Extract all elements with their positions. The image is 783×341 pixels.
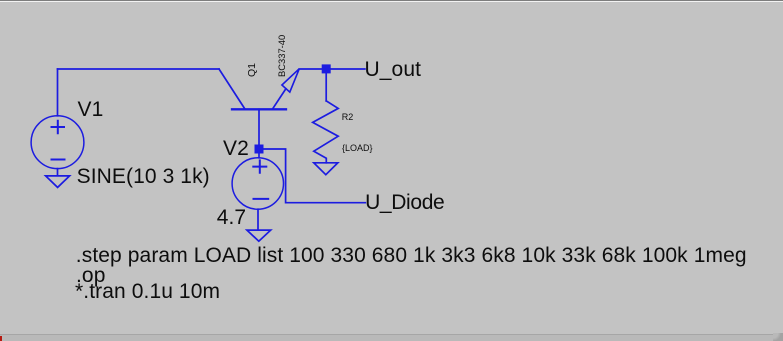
label BC337-40 (rotated)	[277, 35, 286, 77]
junction node at V2 plus	[255, 145, 264, 154]
transistor Q1 collector diagonal	[219, 69, 245, 109]
transistor Q1 base wire down	[258, 109, 260, 149]
wire junction to right elbow	[262, 149, 365, 203]
red corner mark	[0, 336, 2, 341]
directive commented .tran	[75, 281, 220, 302]
transistor Q1 emitter arrow	[282, 69, 299, 92]
ground under V2	[247, 209, 271, 241]
label Q1 (rotated)	[247, 63, 258, 77]
label LOAD value	[342, 144, 373, 153]
wire emitter to U_out junction	[299, 68, 365, 70]
V1 circle	[31, 116, 84, 169]
label V1	[78, 99, 104, 120]
resistor R2 zigzag	[313, 101, 339, 163]
label U_Diode net	[365, 192, 444, 213]
V2 plus sign	[253, 160, 266, 172]
V2 minus sign	[254, 198, 269, 200]
directive .op	[76, 265, 106, 286]
V2 circle	[232, 158, 283, 209]
window top edge	[0, 0, 783, 1]
V1 plus sign	[52, 121, 65, 133]
wire top horizontal to Q1 collector	[58, 68, 220, 70]
label R2	[342, 113, 354, 122]
ground under V1	[46, 169, 70, 188]
resistor R2 lead from junction	[325, 69, 327, 101]
transistor Q1 emitter diagonal	[272, 89, 286, 110]
label SINE value	[77, 166, 210, 187]
directive .step	[76, 245, 747, 266]
label V2	[223, 138, 249, 159]
window bottom-right corner shade	[773, 333, 783, 341]
label 4.7 value	[217, 207, 247, 228]
transistor Q1 base bar	[232, 108, 286, 110]
wire V1 top vertical	[57, 69, 59, 116]
label U_out net	[365, 59, 422, 80]
ground under R2	[314, 163, 338, 175]
window bottom strip	[0, 334, 783, 335]
V1 minus sign	[52, 159, 65, 161]
junction node at U_out	[322, 64, 331, 73]
voltage source V2 stub to circle	[258, 152, 260, 158]
